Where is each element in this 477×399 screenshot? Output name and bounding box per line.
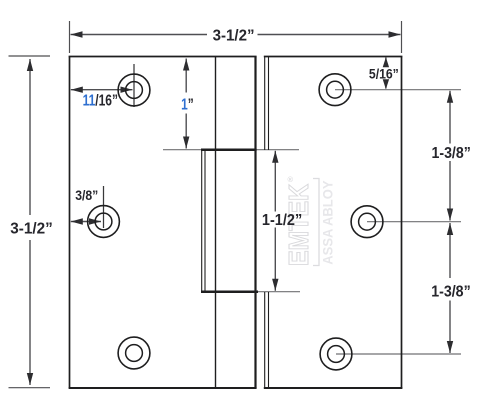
svg-text:3-1/2”: 3-1/2” bbox=[10, 220, 53, 237]
svg-text:5/16”: 5/16” bbox=[369, 66, 399, 81]
svg-text:®: ® bbox=[288, 175, 294, 184]
svg-text:11/16”: 11/16” bbox=[83, 92, 118, 109]
svg-text:1-3/8”: 1-3/8” bbox=[431, 284, 471, 301]
svg-text:1-1/2”: 1-1/2” bbox=[262, 212, 302, 229]
svg-text:3/8”: 3/8” bbox=[75, 188, 98, 203]
svg-text:1”: 1” bbox=[181, 96, 194, 113]
svg-text:ASSA ABLOY: ASSA ABLOY bbox=[320, 180, 336, 265]
svg-text:3-1/2”: 3-1/2” bbox=[213, 27, 255, 44]
svg-text:1-3/8”: 1-3/8” bbox=[432, 145, 471, 162]
